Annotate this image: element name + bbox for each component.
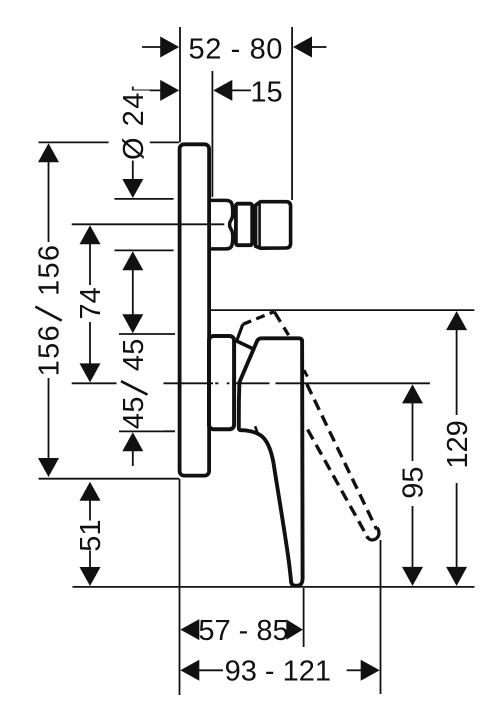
slash 156/156 <box>35 307 61 321</box>
extension line plate front below (57-85 left) <box>179 479 181 695</box>
arrow Ø24 top (down) <box>122 179 143 198</box>
dashed raised lever left edge <box>308 430 369 539</box>
bg 45/45 <box>117 337 164 431</box>
svg-text:74: 74 <box>75 287 107 319</box>
extension line lever tip below (57-85 right) <box>303 588 305 647</box>
label backgrounds <box>32 91 474 551</box>
dimension tail 52-80 left <box>142 46 161 48</box>
arrow 129 down <box>446 567 467 586</box>
arrow 95 up <box>402 384 423 403</box>
arrow 15 left (right-pointing) <box>160 80 179 101</box>
arrow 52-80 right (left-pointing) <box>293 37 312 58</box>
svg-text:51: 51 <box>75 519 107 551</box>
dimension tail 15 right <box>231 89 251 91</box>
dimension tail Ø24 upper <box>132 87 134 180</box>
spout connector <box>211 200 233 249</box>
dimension line 156/156 <box>48 162 50 460</box>
arrow 45 top (down) <box>122 314 143 333</box>
dimension tail 93-121 left <box>198 669 223 671</box>
handle sleeve <box>209 336 234 429</box>
extension line plate top (156 top) <box>39 141 109 143</box>
centerline handle axis <box>72 382 430 384</box>
arrow Ø24 bottom (up) <box>122 251 143 270</box>
arrow 57-85 right <box>286 619 303 639</box>
svg-text:95: 95 <box>398 466 430 498</box>
arrow 129 up <box>446 311 467 330</box>
bg Ø24 <box>116 91 150 161</box>
arrow 45 bottom (up) <box>122 432 143 451</box>
spout cap seam <box>258 203 261 248</box>
dashed raised lever right edge <box>307 384 377 529</box>
dimension line 95 <box>412 403 414 568</box>
arrow 57-85 left <box>180 619 199 640</box>
handle neck diagonal <box>236 341 252 349</box>
svg-text:Ø 24: Ø 24 <box>118 91 150 160</box>
extension line spout top (Ø24 top) <box>115 198 174 200</box>
arrow 93-121 right <box>361 660 380 681</box>
arrow 156 up <box>38 143 59 162</box>
dashed raised lever tip cap <box>367 528 379 540</box>
extension line wall top (52-80 left) <box>179 27 181 142</box>
dimension tail Ø24/45 connector <box>132 269 134 315</box>
handle body and lever <box>239 338 303 585</box>
spout end cap <box>256 202 291 249</box>
bg 95 <box>396 461 430 506</box>
svg-text:15: 15 <box>250 76 282 108</box>
svg-text:129: 129 <box>442 420 474 468</box>
slash 45/45 <box>121 381 148 394</box>
arrow 51 up <box>80 482 101 501</box>
bg 129 <box>440 415 474 483</box>
extension line lever bottom (51/95/129 bottom) <box>73 586 475 588</box>
extension line plate bottom (156 bottom) <box>39 478 180 480</box>
extension line sleeve top (45 top) <box>119 333 175 335</box>
raised lever crossing tick <box>304 370 307 377</box>
centerline spout axis <box>72 223 225 225</box>
arrow 156 down <box>38 458 59 477</box>
dimension tail 52-80 right <box>311 46 327 48</box>
arrow 51 down <box>80 567 101 586</box>
arrow 15 right (left-pointing) <box>213 80 232 101</box>
extension line handle top (129 top) <box>208 309 474 311</box>
dimension tail 93-121 right <box>347 669 362 671</box>
raised handle neck (solid part) <box>236 324 243 342</box>
extension line dashed-lever reach (93-121 right) <box>380 540 382 694</box>
bg 74 <box>73 285 107 322</box>
spout cylinder <box>236 204 252 246</box>
dimension line 51 <box>89 500 91 568</box>
arrow 52-80 left (right-pointing) <box>160 37 179 58</box>
dimension tail 15 left <box>134 89 162 91</box>
escutcheon plate <box>180 144 210 475</box>
arrow 95 down <box>402 567 423 586</box>
arrow 93-121 left <box>180 660 199 681</box>
extension line spout bottom (Ø24 bottom) <box>115 249 174 251</box>
bg 156/156 <box>32 242 66 378</box>
svg-text:57 - 85: 57 - 85 <box>198 615 288 647</box>
underside tick <box>255 426 258 435</box>
extension line sleeve bottom (45 bottom) <box>119 430 175 432</box>
extension line spout end (52-80 right) <box>291 27 293 200</box>
dimension tail 45 lower <box>132 450 134 466</box>
dimension line 74 <box>89 244 91 364</box>
dashed raised handle end edge <box>274 312 288 336</box>
dashed raised handle top edge <box>243 312 274 325</box>
svg-text:52 - 80: 52 - 80 <box>189 34 284 66</box>
bg 51 <box>73 521 107 551</box>
arrow 74 up <box>80 225 101 244</box>
arrow 74 down <box>80 363 101 382</box>
extension line spout start (15 right) <box>211 71 213 197</box>
svg-text:93 - 121: 93 - 121 <box>225 656 331 688</box>
dimension line 129 <box>456 330 458 568</box>
